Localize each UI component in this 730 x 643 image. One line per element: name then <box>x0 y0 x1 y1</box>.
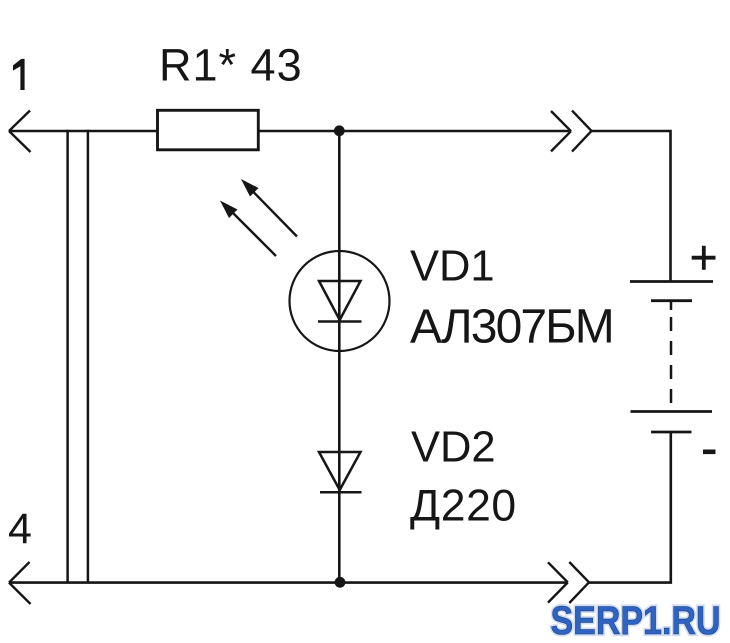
left cable line 2 <box>87 130 90 582</box>
svg-text:АЛ307БМ: АЛ307БМ <box>410 301 613 354</box>
battery GB1 cell 1 short plate <box>651 299 692 302</box>
svg-text:VD1: VD1 <box>410 243 495 291</box>
LED VD1 cathode bar <box>318 320 362 323</box>
left cable line 1 <box>66 130 69 582</box>
minus sign <box>703 450 716 455</box>
pin label 1 <box>13 59 25 90</box>
resistor R1 <box>158 110 259 150</box>
wire bottom left segment <box>9 581 340 584</box>
watermark SERP1.RU <box>551 597 721 642</box>
LED light arrow 1 <box>220 201 276 257</box>
wire bottom right corner <box>589 432 671 583</box>
diode VD2 triangle <box>319 452 361 490</box>
wire resistor to node A <box>258 130 339 133</box>
LED VD1 triangle <box>319 281 361 320</box>
svg-text:Д220: Д220 <box>410 482 517 531</box>
battery GB1 cell 1 long plate (+) <box>630 280 713 283</box>
battery GB1 cell 2 short plate (-) <box>651 431 692 434</box>
wire node B to bottom chevron <box>340 581 566 584</box>
LED VD1 circle <box>290 251 390 351</box>
svg-text:R1* 43: R1* 43 <box>159 40 303 91</box>
svg-text:VD2: VD2 <box>411 424 496 472</box>
wire top right corner <box>592 131 671 281</box>
battery GB1 cell 2 long plate <box>631 410 713 413</box>
wire node A to top chevron <box>339 130 569 133</box>
battery dashed link <box>670 302 673 411</box>
terminal arrow pin 1 <box>9 111 31 153</box>
cable break chevrons bottom <box>548 562 589 603</box>
node B junction dot <box>335 577 346 588</box>
node A junction dot <box>334 125 345 136</box>
LED light arrow 2 <box>241 179 297 237</box>
plus sign <box>692 246 716 270</box>
terminal arrow pin 4 <box>9 562 31 604</box>
wire top left segment <box>9 130 158 133</box>
svg-text:4: 4 <box>8 505 32 553</box>
wire node A to node B (center vertical) <box>338 131 341 582</box>
svg-text:SERP1.RU: SERP1.RU <box>551 597 721 642</box>
diode VD2 cathode bar <box>320 491 362 494</box>
cable break chevrons top <box>551 111 592 152</box>
